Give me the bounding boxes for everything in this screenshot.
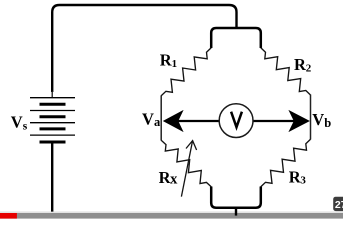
progress bar red played segment [0, 213, 17, 219]
wire: bottom stem [235, 208, 237, 216]
svg-text:a: a [154, 115, 161, 129]
voltmeter connection shafts [178, 120, 220, 122]
svg-text:3: 3 [300, 175, 306, 187]
progress bar grey [0, 213, 343, 219]
resistor Rx zigzag (variable) [161, 140, 211, 187]
resistor R2 zigzag [261, 48, 311, 95]
svg-text:V: V [142, 110, 154, 129]
node Va vertical [160, 96, 162, 141]
wire: battery positive up, top run, corner down to top node [52, 5, 236, 92]
wire: bottom node bar with stubs [211, 187, 261, 208]
battery Vs : short thick plates [40, 104, 66, 142]
resistor R1 zigzag [161, 48, 211, 96]
node Vb vertical [310, 95, 312, 140]
wire: battery negative down to progress bar [51, 144, 53, 212]
voltmeter U1 circle [219, 104, 253, 138]
svg-text:2: 2 [306, 63, 312, 75]
svg-text:x: x [170, 171, 178, 187]
arrow to Vb (right stealth head) [288, 110, 310, 132]
svg-text:s: s [23, 121, 28, 133]
svg-text:1: 1 [172, 58, 178, 70]
progress bar track (light) [0, 211, 343, 213]
battery Vs : long thin plates [30, 98, 75, 135]
svg-text:b: b [324, 116, 331, 130]
resistor R3 zigzag [261, 139, 311, 187]
wire: thin lead into battery top plate [51, 91, 53, 98]
Rx wiper arrow [181, 141, 196, 197]
wire: top node bar with stubs [211, 28, 261, 48]
voltmeter V letter [231, 112, 242, 128]
timestamp box bottom-right [333, 197, 343, 211]
svg-text:V: V [11, 113, 23, 132]
arrow to Va (left stealth head) [163, 110, 184, 132]
svg-text:V: V [312, 110, 324, 129]
svg-text:27: 27 [335, 199, 343, 211]
